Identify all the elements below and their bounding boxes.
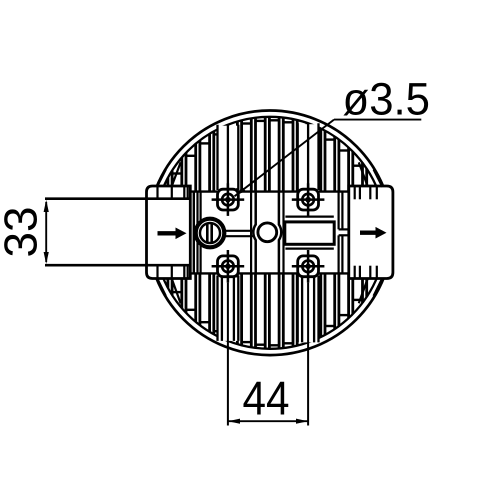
mounting plate panel (194, 192, 349, 274)
bolt holes with crosshairs (222, 194, 234, 206)
slotted port inner circle (200, 223, 220, 243)
right web pair and neck (339, 192, 349, 274)
white columns above/below bolt pads (218, 126, 239, 189)
inner circle (fin root circle) (154, 117, 386, 349)
left connector neck (225, 231, 254, 236)
collar left line with bulge (253, 192, 255, 274)
right flange boss (349, 186, 393, 279)
center hole (258, 223, 277, 242)
bolt pad leg lines (218, 123, 319, 342)
inlet pipe top wall (45, 197, 190, 200)
port pocket edges (285, 217, 333, 249)
leader and label diameter 3.5 (334, 119, 421, 121)
cooling fins (vertical rib lines) (168, 117, 377, 349)
flange tangent connector lines (157, 162, 382, 303)
svg-text:33: 33 (0, 207, 47, 258)
slot lines in port (207, 223, 211, 242)
collar right line with bulge (279, 192, 281, 274)
left flange boss (147, 186, 191, 279)
outer circle (head outline) (148, 111, 393, 356)
fin groove cap lines (172, 120, 376, 345)
bolt pads (rounded squares) (218, 189, 239, 210)
right flow arrow (360, 231, 377, 235)
fin stubs inside flanges (158, 187, 377, 279)
left flow arrow (158, 231, 178, 235)
inlet pipe bottom wall (45, 264, 190, 267)
plate top and bottom edges (190, 192, 348, 274)
dimension 33 (pipe height) (45, 202, 47, 262)
internal web lines (198, 192, 284, 274)
dimension 44 (hole spacing) (228, 420, 308, 422)
rectangular port (285, 222, 334, 244)
svg-text:ø3.5: ø3.5 (343, 73, 431, 124)
plate left edge bar (193, 192, 195, 274)
svg-text:44: 44 (243, 372, 290, 425)
slotted port boss (thick ring) (196, 219, 225, 248)
